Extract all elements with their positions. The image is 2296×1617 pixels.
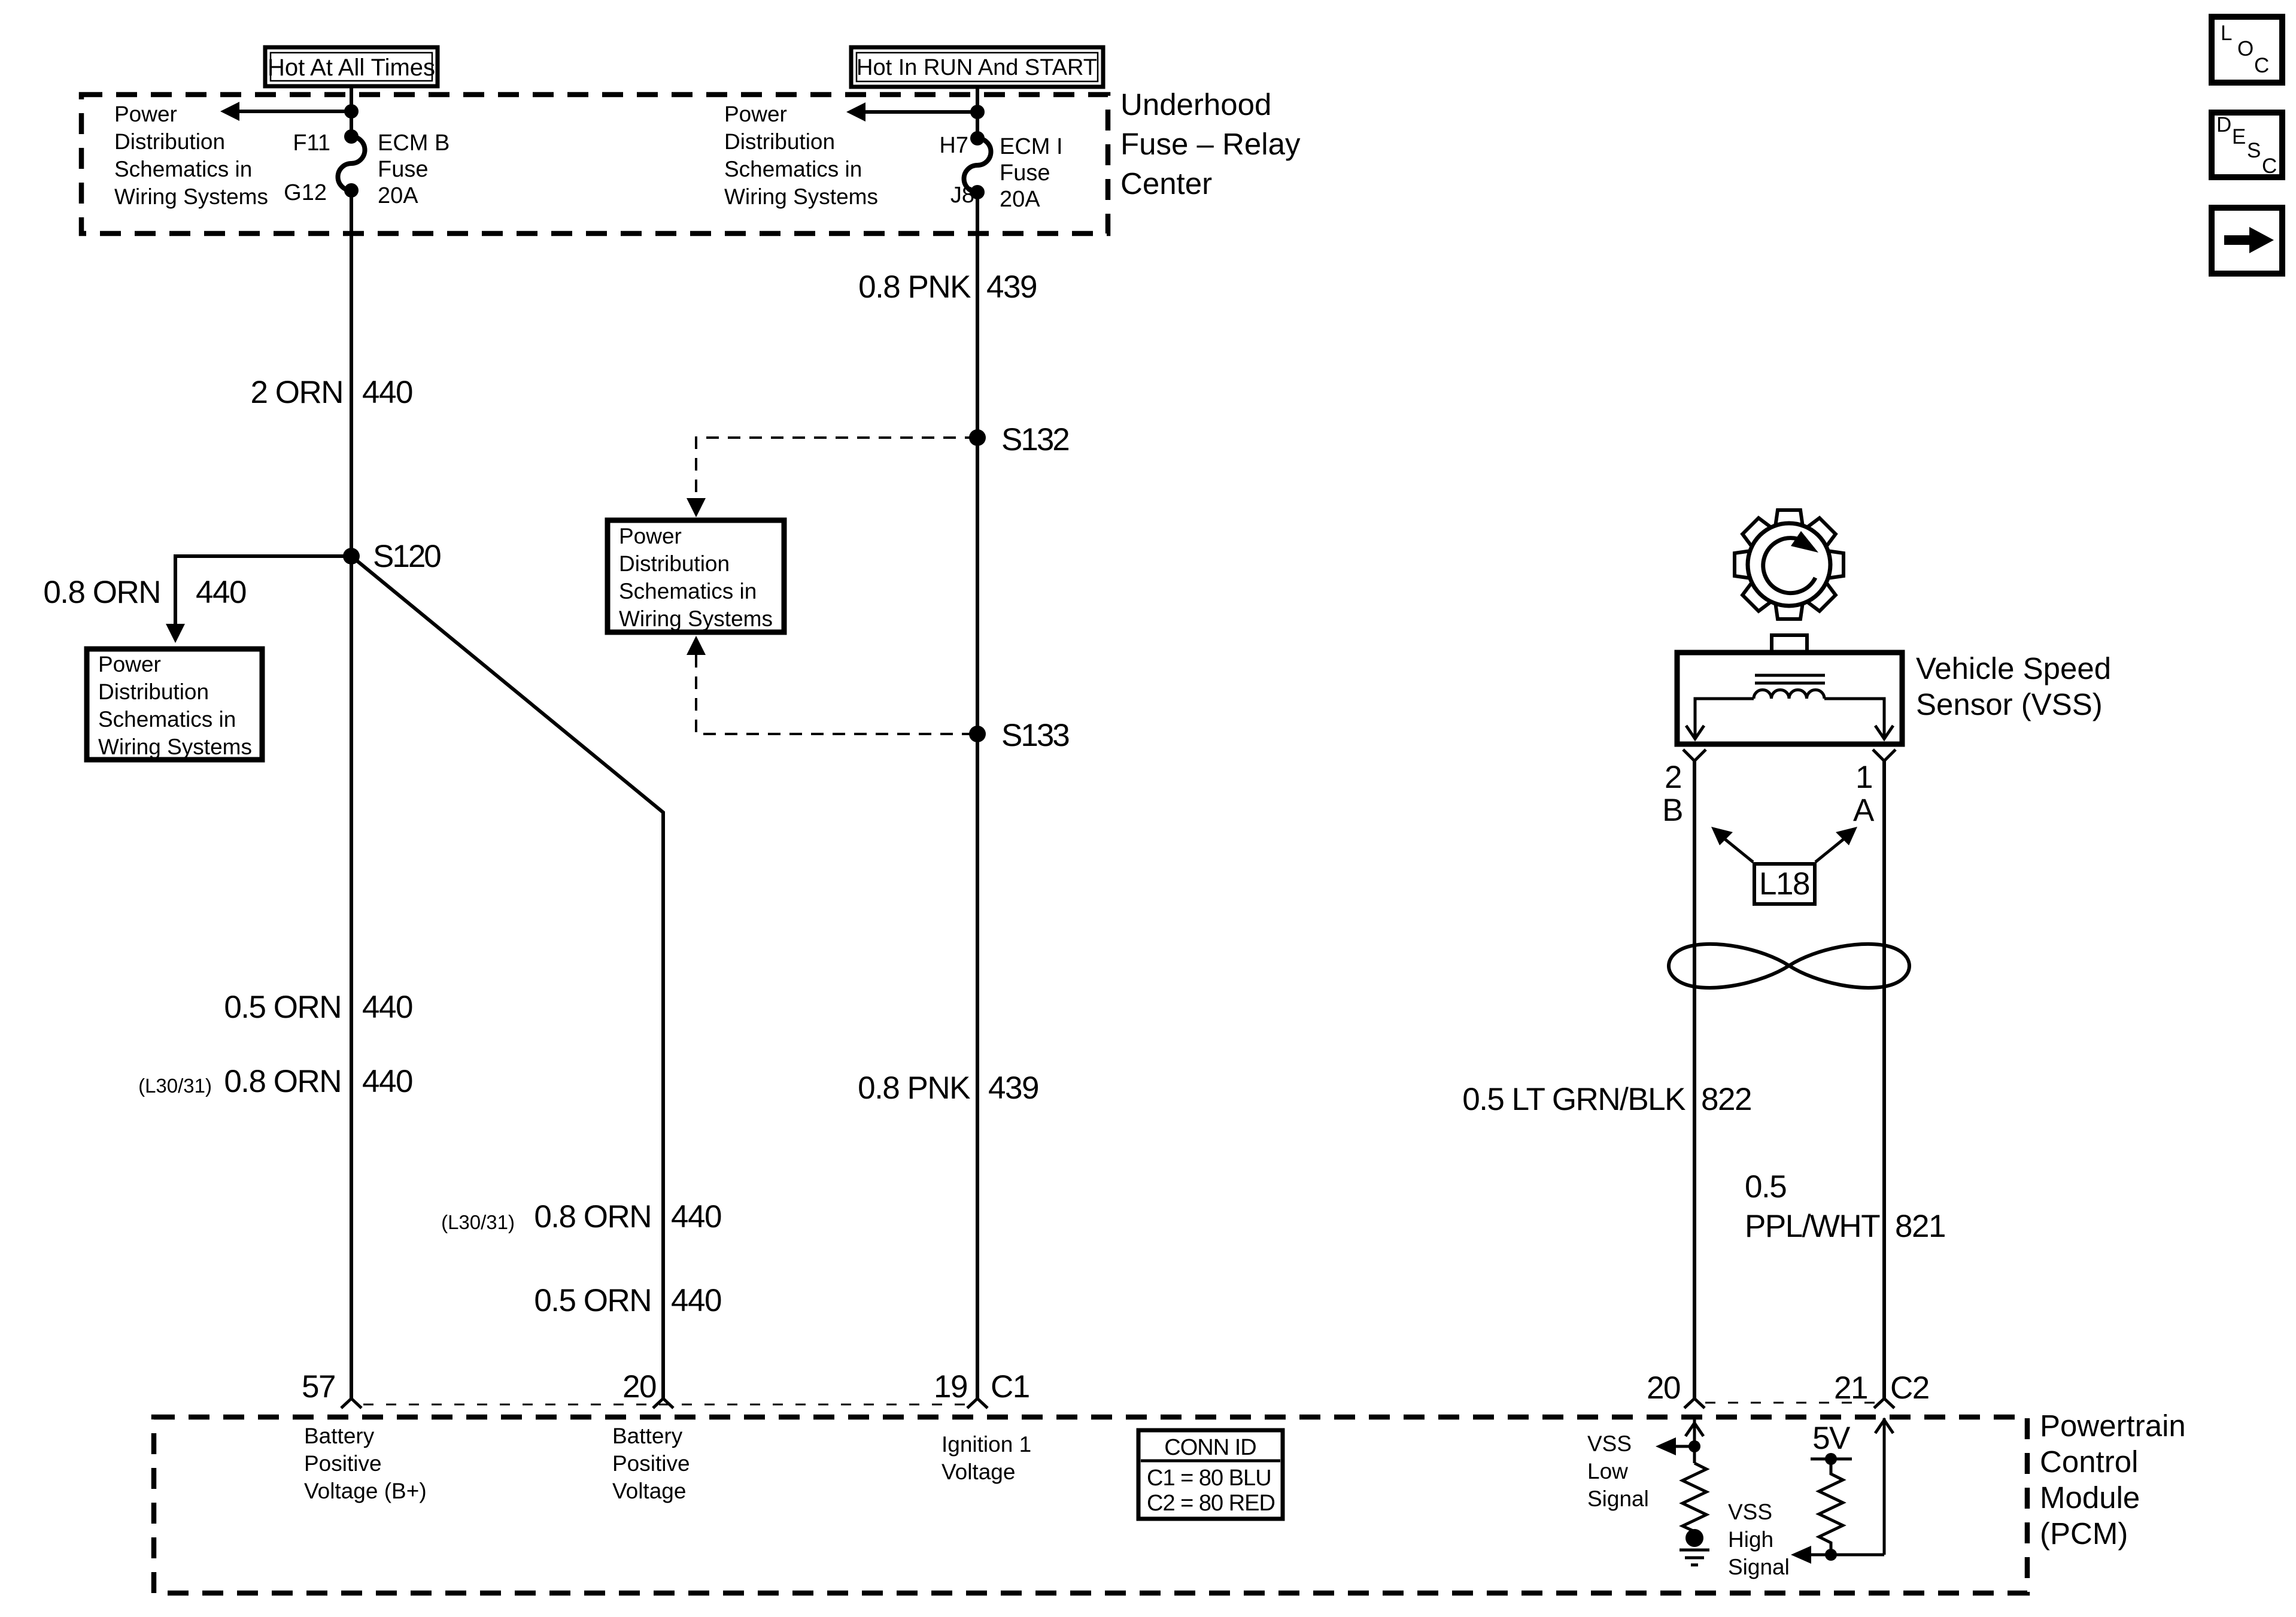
SECTION: middle fuse circuit (608, 47, 1103, 1398)
svg-text:G12: G12 (284, 180, 327, 205)
svg-text:Signal: Signal (1728, 1555, 1790, 1579)
arrow legend box (2212, 208, 2282, 274)
pickup core lines (1755, 675, 1825, 683)
wire VSS low from pin B to PCM pin 20 (1693, 761, 1696, 1398)
label (L30/31) 0.8 ORN 440 (diagonal wire) (441, 1199, 721, 1234)
VSS high input: arrow up at pin 21 (1875, 1418, 1893, 1555)
svg-text:440: 440 (196, 575, 246, 610)
node S133 (969, 726, 986, 742)
label (L30/31) 0.8 ORN 440 (left wire) (138, 1064, 412, 1099)
svg-text:Wiring Systems: Wiring Systems (98, 735, 252, 759)
note Power Distribution Schematics (left fuse) (114, 102, 268, 209)
label 2 ORN 440 (251, 375, 412, 410)
svg-text:Ignition 1: Ignition 1 (942, 1432, 1031, 1457)
svg-text:2 ORN: 2 ORN (251, 375, 343, 410)
fuse ECM I 20A (964, 131, 991, 199)
wire from Hot In RUN box to fuse H7 (976, 87, 979, 138)
svg-text:Power: Power (619, 524, 682, 548)
svg-text:440: 440 (362, 990, 412, 1025)
label Battery Positive Voltage (B+) (304, 1424, 427, 1503)
svg-text:Distribution: Distribution (724, 129, 835, 154)
svg-text:20: 20 (622, 1369, 656, 1404)
svg-text:Fuse: Fuse (378, 157, 428, 182)
resistor R-low (1682, 1463, 1706, 1531)
svg-text:Powertrain: Powertrain (2040, 1409, 2186, 1443)
5V rail (1811, 1458, 1852, 1461)
svg-text:Power: Power (98, 652, 161, 676)
wire branch from S120 to left arrow (166, 556, 351, 643)
node junction at left feed (344, 104, 359, 119)
svg-text:5V: 5V (1812, 1421, 1851, 1456)
label 0.5 LT GRN/BLK 822 (1462, 1082, 1751, 1117)
coil lead left with arrow (1686, 699, 1754, 739)
junction on 5V rail (1825, 1453, 1837, 1465)
coil lead right with arrow (1824, 699, 1893, 739)
caption Vehicle Speed Sensor (1916, 651, 2111, 721)
label 0.5 PPL/WHT 821 (1745, 1169, 1945, 1244)
svg-text:0.5 ORN: 0.5 ORN (224, 990, 341, 1025)
svg-text:57: 57 (302, 1369, 335, 1404)
svg-text:Fuse – Relay: Fuse – Relay (1120, 127, 1301, 161)
dashed route from S132 to note box (687, 438, 977, 517)
label 0.5 ORN 440 (left wire) (224, 990, 412, 1025)
Underhood Fuse-Relay Center dashed box (81, 95, 1108, 233)
svg-text:PPL/WHT: PPL/WHT (1745, 1209, 1880, 1244)
svg-text:CONN ID: CONN ID (1164, 1435, 1256, 1460)
svg-text:Distribution: Distribution (98, 679, 209, 704)
svg-text:C: C (2254, 54, 2269, 77)
svg-text:0.5 LT GRN/BLK: 0.5 LT GRN/BLK (1462, 1082, 1685, 1117)
svg-text:Schematics in: Schematics in (98, 707, 236, 732)
wire from pin 21 to VSS High arrow (1791, 1546, 1884, 1564)
wire 440 from G12 down to pin 57 (350, 190, 353, 1398)
svg-text:Hot At All Times: Hot At All Times (268, 54, 435, 81)
svg-text:S132: S132 (1001, 422, 1068, 457)
svg-text:Voltage (B+): Voltage (B+) (304, 1479, 427, 1503)
VSS body box (1677, 653, 1902, 744)
pin 21 C2 (1834, 1370, 1929, 1408)
label 0.8 ORN 440 (43, 575, 246, 610)
svg-text:Fuse: Fuse (1000, 160, 1050, 186)
svg-text:20A: 20A (378, 183, 418, 208)
wire 439 from J8 down to pin 19 (976, 192, 979, 1398)
svg-text:Sensor (VSS): Sensor (VSS) (1916, 687, 2103, 721)
twisted pair symbol (1669, 944, 1909, 988)
svg-text:Schematics in: Schematics in (114, 157, 252, 181)
svg-text:0.8 PNK: 0.8 PNK (858, 269, 971, 305)
svg-text:Signal: Signal (1587, 1486, 1649, 1511)
junction at VSS high (1825, 1549, 1837, 1561)
resistor R-high (1819, 1459, 1843, 1555)
svg-text:822: 822 (1701, 1082, 1751, 1117)
svg-text:Control: Control (2040, 1445, 2138, 1479)
svg-text:Battery: Battery (612, 1424, 683, 1448)
reluctor gear icon (1735, 510, 1844, 619)
svg-text:440: 440 (671, 1199, 721, 1234)
pin 57 (302, 1369, 362, 1408)
note box Power Distribution Schematics (S120 branch) (87, 649, 262, 760)
svg-text:D: D (2216, 113, 2231, 136)
pin 20 (C1) (622, 1369, 673, 1408)
svg-text:S: S (2247, 139, 2261, 162)
VSS low input: arrow up at pin 20 (1685, 1418, 1703, 1463)
wire diagonal from S120 to pin 20 branch (351, 556, 663, 1398)
pin label 1 A (1853, 760, 1875, 828)
connector half pin A (1873, 750, 1896, 761)
svg-text:440: 440 (362, 375, 412, 410)
svg-text:Wiring Systems: Wiring Systems (724, 184, 878, 209)
svg-text:L: L (2221, 22, 2232, 45)
junction at VSS low (1688, 1440, 1700, 1452)
svg-text:21: 21 (1834, 1370, 1867, 1406)
svg-text:Power: Power (114, 102, 177, 126)
SECTION: left fuse circuit (43, 47, 1301, 1398)
svg-text:Voltage: Voltage (612, 1479, 686, 1503)
ground symbol (1680, 1550, 1709, 1565)
svg-text:Low: Low (1587, 1459, 1628, 1483)
svg-text:1: 1 (1855, 760, 1872, 795)
CONN ID table (1138, 1430, 1283, 1519)
svg-text:O: O (2237, 37, 2254, 60)
svg-text:L18: L18 (1759, 866, 1809, 902)
svg-text:B: B (1662, 793, 1682, 828)
PCM dashed box (154, 1417, 2027, 1593)
SECTION: top-right icons (2212, 17, 2282, 274)
svg-text:High: High (1728, 1527, 1773, 1552)
svg-text:0.5 ORN: 0.5 ORN (534, 1283, 651, 1318)
pin 19 C1 (934, 1369, 1029, 1408)
svg-text:20A: 20A (1000, 187, 1040, 212)
svg-text:0.8 ORN: 0.8 ORN (43, 575, 160, 610)
caption Powertrain Control Module (2040, 1409, 2186, 1551)
svg-text:0.8 PNK: 0.8 PNK (858, 1070, 970, 1106)
fuse ECM B 20A (338, 129, 365, 198)
connector dashed line C2 (1705, 1402, 1875, 1404)
svg-text:20: 20 (1647, 1370, 1680, 1406)
svg-text:C2 = 80 RED: C2 = 80 RED (1147, 1491, 1275, 1516)
note box Power Distribution Schematics (S132/S133) (608, 520, 784, 632)
svg-text:S133: S133 (1001, 718, 1069, 753)
svg-text:Schematics in: Schematics in (619, 579, 757, 603)
svg-text:ECM I: ECM I (1000, 134, 1063, 159)
connector half pin B (1683, 750, 1706, 761)
svg-text:821: 821 (1895, 1209, 1945, 1244)
VSS mounting stub (1772, 635, 1807, 654)
svg-text:VSS: VSS (1728, 1500, 1772, 1524)
svg-text:Module: Module (2040, 1481, 2140, 1515)
LOC legend box (2212, 17, 2282, 83)
svg-text:0.8 ORN: 0.8 ORN (224, 1064, 341, 1099)
svg-text:Distribution: Distribution (114, 129, 225, 154)
wire VSS high from pin A to PCM pin 21 (1882, 761, 1886, 1398)
svg-text:VSS: VSS (1587, 1431, 1632, 1456)
svg-text:Voltage: Voltage (942, 1460, 1015, 1484)
node junction at ignition feed (970, 105, 985, 119)
svg-text:J8: J8 (950, 183, 974, 208)
svg-text:440: 440 (671, 1283, 721, 1318)
svg-text:440: 440 (362, 1064, 412, 1099)
svg-text:Center: Center (1120, 166, 1212, 201)
svg-text:439: 439 (988, 1070, 1038, 1106)
svg-text:A: A (1853, 793, 1875, 828)
pin 20 (C2) (1647, 1370, 1705, 1408)
label 0.8 PNK 439 (upper) (858, 269, 1037, 305)
svg-text:(L30/31): (L30/31) (138, 1075, 212, 1097)
svg-text:2: 2 (1665, 760, 1681, 795)
pickup coil (1754, 690, 1824, 699)
arrow to VSS Low Signal (1656, 1437, 1694, 1455)
svg-text:F11: F11 (293, 131, 330, 156)
label 0.8 PNK 439 (lower) (858, 1070, 1038, 1106)
svg-text:(L30/31): (L30/31) (441, 1211, 515, 1233)
rotation arrow (1763, 538, 1815, 593)
svg-text:Positive: Positive (612, 1451, 690, 1476)
svg-text:S120: S120 (373, 539, 441, 574)
svg-text:Wiring Systems: Wiring Systems (114, 184, 268, 209)
svg-text:439: 439 (986, 269, 1037, 305)
label VSS Low Signal (1587, 1431, 1649, 1511)
label Ignition 1 Voltage (942, 1432, 1031, 1484)
svg-text:0.5: 0.5 (1745, 1169, 1786, 1205)
svg-text:Schematics in: Schematics in (724, 157, 862, 181)
ground dot (1685, 1529, 1703, 1547)
caption Underhood Fuse-Relay Center (1120, 87, 1301, 201)
connector callout arrows L18 (1711, 827, 1857, 862)
connector label L18 (1754, 864, 1815, 904)
svg-text:Distribution: Distribution (619, 551, 730, 576)
svg-text:Wiring Systems: Wiring Systems (619, 606, 773, 631)
svg-text:C: C (2262, 154, 2277, 178)
pin label 2 B (1662, 760, 1682, 828)
label ECM I Fuse 20A (1000, 134, 1063, 212)
svg-text:H7: H7 (939, 133, 968, 158)
note Power Distribution Schematics (ECM I fuse) (724, 102, 878, 209)
svg-text:Positive: Positive (304, 1451, 382, 1476)
label ECM B Fuse 20A (378, 131, 450, 208)
svg-text:Power: Power (724, 102, 787, 126)
label Battery Positive Voltage (612, 1424, 690, 1503)
SECTION: VSS sensor (1462, 510, 2111, 1398)
node S120 (343, 548, 360, 565)
svg-text:E: E (2232, 125, 2246, 148)
node S132 (969, 429, 986, 446)
Hot At All Times box (265, 47, 438, 86)
dashed route from S133 to note box (687, 636, 977, 734)
connector dashed line C1 (363, 1404, 967, 1406)
svg-text:ECM B: ECM B (378, 131, 450, 156)
svg-text:19: 19 (934, 1369, 967, 1404)
svg-text:Hot In RUN And START: Hot In RUN And START (857, 55, 1097, 80)
arrow to power distribution (middle) (846, 102, 977, 122)
svg-text:0.8 ORN: 0.8 ORN (534, 1199, 651, 1234)
svg-text:Battery: Battery (304, 1424, 375, 1448)
wire from Hot At All Times to fuse F11 (350, 86, 353, 136)
svg-text:C1: C1 (991, 1369, 1029, 1404)
DESC legend box (2212, 113, 2282, 178)
Hot In RUN And START box (851, 47, 1103, 87)
svg-text:Vehicle Speed: Vehicle Speed (1916, 651, 2111, 685)
svg-text:C2: C2 (1890, 1370, 1929, 1406)
label VSS High Signal (1728, 1500, 1790, 1579)
svg-text:(PCM): (PCM) (2040, 1516, 2128, 1551)
SECTION: PCM (154, 1369, 2186, 1593)
arrow to power distribution (left) (220, 102, 351, 121)
label 0.5 ORN 440 (diagonal wire) (534, 1283, 721, 1318)
svg-text:C1 = 80 BLU: C1 = 80 BLU (1147, 1466, 1271, 1491)
svg-text:Underhood: Underhood (1120, 87, 1271, 122)
